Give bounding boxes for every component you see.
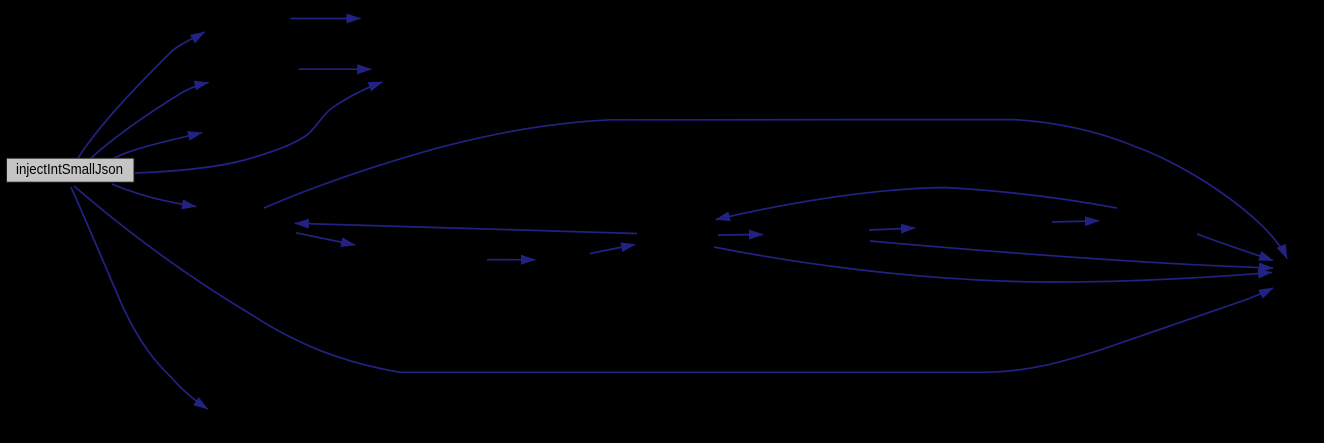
- wire edge N2 to M: [487, 259, 535, 261]
- wire edge B: box to second upper arrow: [91, 83, 209, 159]
- wire edge L to N2: [296, 233, 355, 245]
- wire edge A: box to upper arrow: [78, 32, 205, 158]
- wire edge U to W: [1052, 221, 1099, 222]
- wire edge R to Z sag line: [714, 247, 1272, 282]
- wire edge W to R: arc over: [716, 188, 1117, 220]
- wire straight arrow S1: [290, 18, 360, 20]
- wire edge E: s-curve from box right: [135, 82, 383, 173]
- node injectIntSmallJson: [7, 158, 135, 182]
- wire edge C: box to third arrow: [114, 133, 202, 159]
- wire edge R to L long leftward: [295, 223, 637, 233]
- wire edge H: bottom long arc to right node: [74, 186, 1273, 372]
- wire edge S to Z long line: [870, 241, 1273, 268]
- wire edge M to R: [590, 245, 635, 254]
- wire edge G: box down to lower-left arrow: [71, 187, 208, 409]
- svg-text:injectIntSmallJson: injectIntSmallJson: [16, 161, 123, 178]
- wire edge F: top long arc to right node: [264, 120, 1287, 259]
- wire edge D: box to mid node: [112, 184, 196, 207]
- wire edge W to Z diagonal: [1197, 234, 1273, 261]
- wire edge R to S: [718, 234, 763, 237]
- wire straight arrow S2: [299, 68, 372, 70]
- wire edge S to U: [869, 228, 915, 230]
